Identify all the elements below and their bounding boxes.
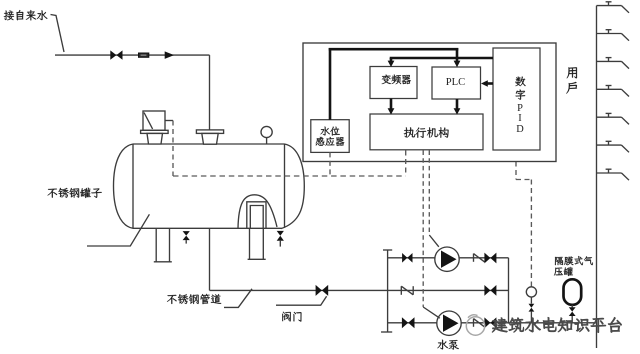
wire: VFD down to actuator [390, 99, 393, 109]
tank top shell line [133, 143, 285, 145]
level sensor signal stub [165, 120, 173, 122]
dashed: sensor box lead down [329, 152, 331, 176]
level sensor nozzle neck [147, 133, 163, 144]
dashed: actuator link down [405, 151, 407, 177]
leader line for 接自来水 [51, 15, 65, 53]
discharge header [508, 258, 510, 323]
diaphragm tank capsule [564, 279, 582, 305]
bypass check connector N [400, 286, 402, 295]
wire: sensor to PLC (up/over) [329, 48, 332, 120]
tank drain valve left [183, 231, 190, 236]
block: 数字PID (digital PID) [493, 48, 540, 150]
tank right end chord [284, 144, 286, 228]
svg-text:PLC: PLC [446, 77, 465, 88]
label: 隔膜式气 / 压罐 (diaphragm pressure tank) [555, 256, 593, 265]
pump P2 signal tail [423, 307, 440, 318]
block: 执行机构 (actuator) [370, 114, 483, 150]
suction pipe inner wall [250, 206, 263, 229]
branch2 suction valve [402, 317, 408, 328]
block: 水位感应器 (water level sensor) [311, 120, 349, 153]
tank drain valve right [277, 231, 284, 236]
discharge pipe to riser [509, 322, 597, 324]
wire: PID to VFD (over) [390, 57, 493, 60]
supply pipe drop to tank inlet [209, 55, 211, 130]
bypass branch pipe [388, 289, 509, 291]
inlet flange on tank [196, 130, 223, 134]
pump branch 2 pipe [388, 322, 509, 324]
dashed: level signal from tank sensor [172, 121, 174, 177]
branch1 suction valve [402, 253, 407, 263]
level sensor flange [141, 130, 169, 133]
faucet branch 5 [597, 116, 622, 118]
svg-text:I: I [518, 113, 522, 124]
pump P1 signal tail [429, 235, 439, 247]
faucet branch 4 [597, 88, 622, 90]
pump P1 [435, 247, 459, 271]
gate valve on supply pipe [110, 50, 116, 59]
pressure signal dashed drop [515, 162, 517, 180]
leader line for 不锈钢罐子 [87, 214, 149, 246]
watermark text 建筑水电知识平台 [492, 317, 621, 332]
supply pipe horizontal [55, 54, 210, 56]
block: PLC [432, 67, 481, 99]
dashed: actuator wire to pump P2 [422, 151, 424, 308]
branch1 check connector [473, 254, 475, 262]
dashed: level signal horizontal [173, 175, 406, 177]
pump P2 [437, 311, 461, 335]
leader line for 不锈钢管道 [224, 289, 252, 308]
sensor gauge cock [530, 297, 532, 304]
faucet branch 1 [597, 5, 622, 7]
control cabinet outer box [303, 43, 556, 162]
pressure gauge on tank [261, 126, 272, 137]
tank left end chord [132, 144, 134, 228]
arrow into 执行机构 (right) [454, 108, 461, 114]
wire: PLC down to actuator [456, 99, 459, 109]
outlet pipe to pumps [210, 289, 388, 291]
block: 变频器 (VFD) [370, 67, 417, 99]
branch2 check connector [473, 319, 475, 327]
label: 接自来水 (tap water inlet) [4, 10, 48, 20]
arrow into PLC top [454, 61, 461, 68]
suction pipe outer wall [247, 202, 266, 229]
tank left dished head [114, 144, 134, 228]
inlet nozzle neck [202, 133, 218, 144]
capsule isolation valve [571, 305, 573, 308]
branch2 discharge valve [484, 317, 490, 328]
flow direction arrow [165, 51, 174, 59]
wire: PID to PLC [487, 82, 493, 85]
watermark logo [466, 315, 484, 335]
bypass valve [484, 285, 490, 296]
arrow into 变频器 top [388, 61, 395, 67]
label: 阀门 (valve) [282, 312, 301, 322]
label: 水泵 (water pump) [438, 340, 459, 350]
arrow into PLC right [481, 80, 488, 87]
arrow into 执行机构 (left) [388, 108, 395, 114]
branch1 discharge valve [484, 253, 490, 264]
faucet branch 6 [597, 144, 622, 146]
water meter on supply pipe [139, 53, 149, 57]
tank right support leg [249, 228, 251, 259]
tank bottom shell line [133, 227, 282, 229]
label: 不锈钢罐子 (stainless steel tank) [48, 188, 102, 198]
valve on outlet pipe [316, 285, 322, 296]
label: 不锈钢管道 (stainless steel pipe) [167, 294, 221, 304]
svg-text:D: D [516, 124, 524, 135]
suction dome inside tank [238, 195, 277, 229]
leader line for 阀门 [276, 296, 327, 305]
user riser pipe [596, 6, 598, 348]
tank outlet pipe down [209, 228, 211, 290]
faucet branch 3 [597, 60, 622, 62]
level sensor box on tank [143, 111, 165, 130]
suction header [387, 250, 389, 332]
label: 用户 (users), vertical [566, 67, 577, 93]
tank right dished head [281, 144, 304, 229]
pump branch 1 pipe [388, 257, 509, 259]
faucet branch 2 [597, 33, 622, 35]
faucet branch 7 [597, 172, 622, 174]
dashed: actuator wire to pump P1 [428, 151, 430, 236]
tank left support leg [155, 228, 157, 261]
pressure sensor bulb [526, 287, 536, 297]
